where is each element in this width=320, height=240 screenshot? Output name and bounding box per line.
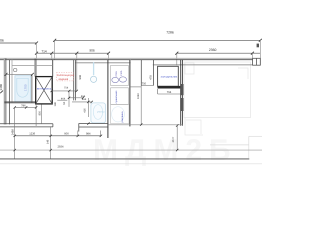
fridge box	[158, 66, 179, 86]
svg-text:714: 714	[41, 49, 47, 53]
svg-text:06: 06	[0, 39, 4, 43]
svg-text:унитаз: унитаз	[97, 110, 104, 113]
svg-text:МДМ2Б: МДМ2Б	[93, 134, 238, 167]
dim 786 under bathroom	[15, 104, 42, 126]
niche dim	[130, 86, 154, 87]
svg-text:полотенцесуш.: полотенцесуш.	[57, 74, 75, 77]
left dim tick	[0, 91, 3, 94]
dim line level2 left	[37, 52, 109, 54]
faint existing room outline right	[184, 62, 251, 135]
faint lower-right lines	[210, 136, 262, 158]
svg-text:2934: 2934	[58, 145, 64, 148]
washer dryer box	[111, 65, 129, 85]
counter bar	[158, 86, 182, 89]
svg-text:сушильная: сушильная	[115, 90, 118, 103]
bathtub	[15, 76, 31, 102]
svg-text:вентшахта: вентшахта	[37, 87, 52, 91]
red note	[56, 73, 74, 81]
bottom dark line	[0, 158, 249, 160]
svg-text:464: 464	[82, 98, 87, 101]
tick on wall	[87, 122, 89, 124]
svg-text:984: 984	[86, 133, 91, 136]
top wall	[0, 58, 253, 65]
svg-text:906: 906	[89, 48, 95, 52]
corridor wall east segment	[79, 124, 109, 132]
svg-text:416: 416	[83, 108, 86, 113]
svg-text:1700: 1700	[24, 84, 28, 91]
svg-text:754: 754	[64, 86, 69, 89]
svg-text:СМА: СМА	[120, 70, 123, 76]
wall blocks	[180, 84, 183, 95]
svg-text:водяной: водяной	[59, 78, 69, 81]
wall laundry east	[129, 60, 132, 127]
right boundary wall	[181, 60, 183, 126]
svg-text:900: 900	[64, 133, 69, 136]
svg-text:2360: 2360	[209, 48, 217, 52]
dim line overall 7286	[55, 39, 261, 41]
wall stub left of shaft	[34, 59, 36, 77]
dim line 1236/900/984	[15, 135, 101, 137]
level glyph right	[257, 44, 259, 48]
dim ticks top	[35, 39, 262, 55]
svg-text:850: 850	[38, 111, 41, 116]
svg-text:2577: 2577	[172, 136, 175, 142]
dim line 2934	[0, 149, 262, 151]
dim line top-left clipped	[0, 42, 37, 44]
tub right wall line	[31, 74, 33, 102]
vent shaft X-box	[36, 77, 53, 104]
dim 764	[158, 89, 182, 94]
svg-text:146: 146	[47, 139, 50, 144]
bathroom inner face line	[12, 64, 53, 66]
wall shower/laundry	[107, 60, 109, 138]
wall stub above shaft	[52, 60, 54, 77]
bottom dim verticals	[15, 86, 178, 159]
shower symbol	[91, 62, 97, 82]
svg-text:464: 464	[61, 98, 66, 101]
wall bathroom/shower	[74, 60, 76, 101]
bottom light line	[0, 163, 262, 165]
left wall	[4, 58, 12, 124]
svg-text:750: 750	[142, 83, 147, 86]
svg-text:146: 146	[54, 102, 57, 107]
svg-text:1480: 1480	[0, 83, 3, 90]
svg-text:холодильник: холодильник	[161, 75, 179, 78]
svg-text:478: 478	[149, 75, 152, 80]
svg-text:764: 764	[167, 91, 172, 94]
circle symbol top-left	[14, 68, 17, 71]
toilet	[91, 103, 106, 123]
bathroom south wall	[4, 102, 35, 103]
svg-text:1040: 1040	[137, 93, 140, 99]
svg-text:1236: 1236	[29, 133, 35, 136]
dim line level2 right	[177, 52, 260, 54]
bathroom internal dim	[6, 73, 32, 75]
top-right corner box	[253, 58, 261, 65]
svg-text:раковина: раковина	[121, 111, 124, 122]
svg-text:СМА: СМА	[115, 71, 118, 77]
corridor boundary line east	[108, 124, 182, 126]
svg-text:786: 786	[21, 105, 26, 108]
svg-text:908: 908	[79, 75, 82, 80]
small dims middle	[52, 91, 92, 117]
sink box	[111, 105, 129, 124]
corridor wall west segment	[0, 124, 53, 127]
svg-text:1498: 1498	[11, 129, 15, 136]
lower laundry box	[111, 88, 129, 105]
svg-text:7286: 7286	[166, 31, 174, 35]
extension verticals top	[37, 40, 261, 91]
niche verticals	[141, 60, 153, 86]
